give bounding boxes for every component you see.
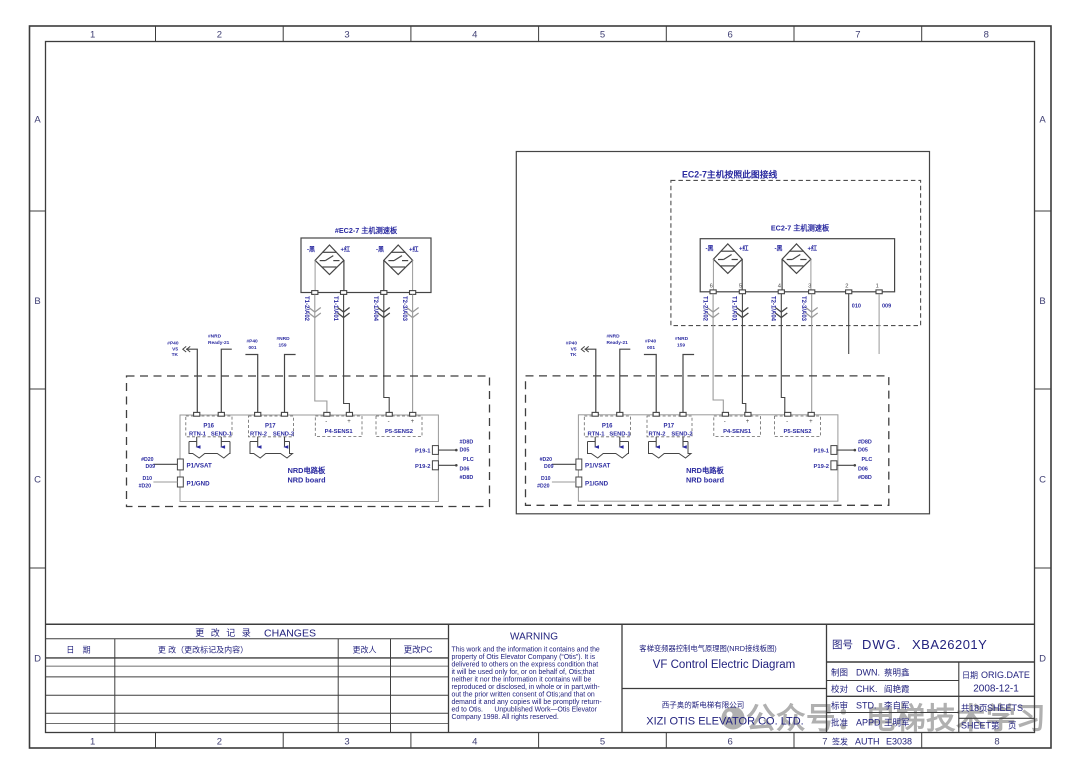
net label #P40 V5 TK (left) xyxy=(167,341,179,359)
wire net V5 into P16-RTN-1 (right) xyxy=(585,349,596,412)
connector P1/GND pad (right) xyxy=(576,477,582,487)
svg-text:5: 5 xyxy=(739,284,742,290)
svg-text:B: B xyxy=(1039,296,1045,307)
net label #NRD 159 (left) xyxy=(277,336,291,349)
right zone tick lines xyxy=(1035,211,1052,568)
net label #P40 001 (left) xyxy=(247,339,259,352)
terminal pin 5 on right board xyxy=(739,290,745,294)
NRD board outline (left) xyxy=(180,415,438,502)
svg-text:更改人: 更改人 xyxy=(353,645,377,655)
svg-text:2: 2 xyxy=(217,30,222,41)
svg-text:#P40: #P40 xyxy=(247,339,259,345)
svg-text:4: 4 xyxy=(472,30,477,41)
wire T2-3/A03 (left) xyxy=(412,295,414,413)
connector P5-SENS2 dashed box (left) xyxy=(376,416,422,437)
connector P19-2 pad (left) xyxy=(432,461,438,470)
svg-text:#D8D: #D8D xyxy=(858,440,872,446)
svg-text:CHANGES: CHANGES xyxy=(264,628,316,640)
plug P17 contact arrows (right) xyxy=(655,445,687,448)
svg-text:-黑: -黑 xyxy=(775,245,783,253)
terminal pin 1 on right board xyxy=(876,290,882,294)
svg-text:-: - xyxy=(388,419,390,425)
top zone numbers 1-8 xyxy=(90,30,989,41)
svg-text:客梯变频器控制电气原理图(NRD接线板图): 客梯变频器控制电气原理图(NRD接线板图) xyxy=(639,644,776,653)
svg-text:批准: 批准 xyxy=(831,718,849,728)
wire D09 to P1/VSAT (left) xyxy=(153,463,177,465)
svg-text:1: 1 xyxy=(90,30,95,41)
svg-text:日 期: 日 期 xyxy=(66,646,93,655)
dashed box EC2-7 host wiring (right) xyxy=(671,180,921,325)
wire into plug P17 pin1 (right) xyxy=(655,437,657,447)
svg-text:P4-SENS1: P4-SENS1 xyxy=(325,429,354,435)
wire right B1- vertical xyxy=(712,259,714,290)
plug shell under P16 (left) xyxy=(189,442,230,459)
title block top line xyxy=(46,623,1035,625)
svg-text:out the prior written consent: out the prior written consent of Otis;an… xyxy=(452,691,595,698)
left zone letters A-D xyxy=(34,115,41,665)
terminal P17-RTN-2 (left) xyxy=(255,412,261,416)
svg-text:T2-3/A03: T2-3/A03 xyxy=(401,296,407,322)
svg-text:第 页: 第 页 xyxy=(991,721,1017,731)
connector P16 dashed box (right) xyxy=(584,416,630,437)
svg-text:3: 3 xyxy=(344,30,349,41)
net label #P40 V5 TK (right) xyxy=(566,341,578,359)
svg-text:#NRD: #NRD xyxy=(607,334,621,340)
svg-text:A: A xyxy=(34,115,41,126)
speed sensor B2 diamond (right board) xyxy=(782,244,811,274)
arrow on wire T2-3/A03 (left) xyxy=(407,308,419,318)
svg-text:This work and the information: This work and the information it contain… xyxy=(452,647,600,654)
wire right B1+ vertical xyxy=(741,259,743,290)
svg-text:NRD电路板: NRD电路板 xyxy=(288,466,326,475)
wire right B2+ vertical xyxy=(810,259,812,290)
svg-text:#D8D: #D8D xyxy=(858,475,872,481)
svg-text:6: 6 xyxy=(710,284,713,290)
wire D10 to P1/GND (left) xyxy=(153,481,177,483)
svg-text:更改PC: 更改PC xyxy=(404,645,433,655)
svg-text:P19-2: P19-2 xyxy=(415,464,430,470)
connector P4-SENS1 dashed box (right) xyxy=(714,416,761,437)
encoder board box EC2-7 (right) xyxy=(700,239,894,292)
svg-text:共18页: 共18页 xyxy=(961,703,987,713)
svg-text:P17: P17 xyxy=(663,424,674,430)
svg-text:日期: 日期 xyxy=(962,671,978,680)
arrow on wire T1-1/A01 (right) xyxy=(736,308,748,318)
svg-text:RTN-2: RTN-2 xyxy=(250,432,267,438)
svg-text:D05: D05 xyxy=(460,448,470,454)
wire D09 to P1/VSAT (right) xyxy=(552,463,576,465)
svg-text:制图: 制图 xyxy=(831,668,848,678)
wire T1-2/A02 (left) xyxy=(315,295,327,413)
svg-text:P16: P16 xyxy=(602,424,613,430)
terminal T2-1 on left board xyxy=(381,291,387,295)
wire T2-1/A04 (left) xyxy=(384,295,389,413)
svg-text:#D20: #D20 xyxy=(139,484,152,490)
svg-text:6: 6 xyxy=(728,737,733,748)
svg-text:V5: V5 xyxy=(172,347,178,353)
changes table lines xyxy=(46,639,449,733)
svg-text:P5-SENS2: P5-SENS2 xyxy=(783,429,811,435)
plug shell under P17 (right) xyxy=(649,442,692,459)
svg-text:T2-1/A04: T2-1/A04 xyxy=(770,296,776,322)
wire B1- vertical (left) xyxy=(314,260,316,290)
wire P19-1 to PLC D05 (right) xyxy=(837,449,854,451)
svg-text:P1/VSAT: P1/VSAT xyxy=(187,463,213,470)
svg-text:SHEETS: SHEETS xyxy=(987,703,1023,713)
svg-text:-: - xyxy=(786,419,788,425)
svg-text:D06: D06 xyxy=(858,467,868,473)
svg-text:NRD board: NRD board xyxy=(287,476,325,485)
wire net 001 into P17-RTN-2 (left) xyxy=(245,355,257,413)
svg-text:T1-2/A02: T1-2/A02 xyxy=(701,296,707,322)
svg-text:WARNING: WARNING xyxy=(510,632,558,643)
wire T1-2/A02 (right) xyxy=(713,294,723,413)
svg-text:009: 009 xyxy=(882,304,891,310)
terminal P4-SENS1- (right) xyxy=(722,412,728,416)
svg-text:+: + xyxy=(411,419,415,425)
wire 010 stub (right pin2) xyxy=(848,294,850,354)
wire B2+ vertical (left) xyxy=(412,260,414,290)
source arrow of net V5 (left) xyxy=(183,346,190,352)
wire net V5 into P16-RTN-1 (left) xyxy=(186,349,197,412)
arrow on wire T2-1/A04 (left) xyxy=(378,308,390,318)
terminal P16-SEND-1 (right) xyxy=(617,412,623,416)
svg-text:SEND-1: SEND-1 xyxy=(211,432,233,438)
wire net 159 into P17-SEND-2 (right) xyxy=(683,355,694,413)
svg-text:D05: D05 xyxy=(858,448,868,454)
wire net Ready-21 into P16-SEND-1 (left) xyxy=(221,349,232,412)
svg-text:C: C xyxy=(1039,475,1046,486)
plug shell under P16 (right) xyxy=(588,442,629,459)
left zone tick lines xyxy=(30,211,46,568)
svg-text:Ready-21: Ready-21 xyxy=(607,340,629,346)
svg-text:P19-2: P19-2 xyxy=(814,464,829,470)
svg-text:SEND-2: SEND-2 xyxy=(273,432,294,438)
svg-text:7: 7 xyxy=(855,30,860,41)
svg-text:#P40: #P40 xyxy=(645,339,657,345)
warning box borders xyxy=(448,624,450,732)
svg-text:#P40: #P40 xyxy=(167,341,179,347)
wire P19-2 to PLC D06 (left) xyxy=(438,464,455,466)
svg-text:-: - xyxy=(325,419,327,425)
wire net 159 into P17-SEND-2 (left) xyxy=(285,355,296,413)
wire into plug P16 pin1 (right) xyxy=(594,437,596,447)
connector P1/VSAT pad (right) xyxy=(576,459,582,470)
watermark logo circle xyxy=(722,707,745,730)
svg-text:阎艳霞: 阎艳霞 xyxy=(884,684,910,694)
outer box EC2-7 field wiring note (right) xyxy=(516,152,929,514)
svg-text:P1/GND: P1/GND xyxy=(187,481,211,488)
wire into plug P17 pin2 (left) xyxy=(284,437,286,447)
svg-text:6: 6 xyxy=(728,30,733,41)
wire T2-1/A04 (right) xyxy=(781,294,785,413)
svg-text:+红: +红 xyxy=(409,246,419,254)
connector P17 dashed box (left) xyxy=(249,416,294,437)
connector P19-1 pad (left) xyxy=(432,446,438,455)
NRD assembly dashed enclosure (left) xyxy=(127,376,490,507)
svg-text:D09: D09 xyxy=(544,464,554,470)
warning body text xyxy=(452,647,602,721)
svg-text:AUTH: AUTH xyxy=(855,737,880,747)
svg-text:EC2-7 主机测速板: EC2-7 主机测速板 xyxy=(771,224,830,233)
connector P19-2 pad (right) xyxy=(831,461,837,470)
right zone letters A-D xyxy=(1039,115,1046,665)
svg-text:P1/VSAT: P1/VSAT xyxy=(585,463,611,470)
label D10 / #D20 xyxy=(537,476,551,490)
svg-text:3: 3 xyxy=(344,737,349,748)
terminal pin 2 on right board xyxy=(846,290,852,294)
svg-text:159: 159 xyxy=(279,343,287,349)
svg-text:#D8D: #D8D xyxy=(460,475,474,481)
svg-text:DWG.: DWG. xyxy=(862,637,901,652)
wire into plug P17 pin2 (right) xyxy=(682,437,684,447)
svg-text:8: 8 xyxy=(994,737,999,748)
svg-text:Ready-21: Ready-21 xyxy=(208,340,230,346)
svg-text:8: 8 xyxy=(984,30,989,41)
svg-text:#NRD: #NRD xyxy=(675,336,689,342)
svg-text:D: D xyxy=(34,654,41,665)
svg-text:CHK.: CHK. xyxy=(856,684,878,694)
svg-text:V5: V5 xyxy=(571,347,577,353)
pin numbers 6 5 4 3 2 1 (right board) xyxy=(710,284,879,290)
svg-text:P17: P17 xyxy=(265,424,276,430)
arrow on wire T2-3/A03 (right) xyxy=(806,308,818,318)
wire B2- vertical (left) xyxy=(383,260,385,290)
svg-text:159: 159 xyxy=(677,343,685,349)
svg-text:西子奥的斯电梯有限公司: 西子奥的斯电梯有限公司 xyxy=(662,700,745,710)
svg-text:APPD: APPD xyxy=(856,718,881,728)
svg-text:+红: +红 xyxy=(341,246,351,254)
svg-text:+: + xyxy=(347,419,351,425)
svg-text:VF Control Electric Diagram: VF Control Electric Diagram xyxy=(653,659,796,671)
bottom zone numbers 1-8 xyxy=(90,737,1000,748)
svg-text:XIZI OTIS ELEVATOR CO. LTD.: XIZI OTIS ELEVATOR CO. LTD. xyxy=(646,716,804,728)
wire into plug P16 pin2 (left) xyxy=(220,437,222,447)
connector P4-SENS1 dashed box (left) xyxy=(315,416,362,437)
terminal P5-SENS2- (right) xyxy=(785,412,791,416)
svg-text:+红: +红 xyxy=(739,245,749,253)
svg-text:#NRD: #NRD xyxy=(277,336,291,342)
bottom zone tick lines xyxy=(156,733,922,749)
svg-text:E3038: E3038 xyxy=(886,737,912,747)
svg-text:更 改（更改标记及内容）: 更 改（更改标记及内容） xyxy=(158,645,248,655)
speed sensor B1 diamond (left board) xyxy=(315,245,344,275)
wire P19-1 to PLC D05 (left) xyxy=(438,449,455,451)
terminal P4-SENS1+ (left) xyxy=(346,412,352,416)
svg-text:+: + xyxy=(809,419,813,425)
label #D20 / D09 xyxy=(540,457,554,470)
wire B1+ vertical (left) xyxy=(343,260,345,290)
svg-text:标审: 标审 xyxy=(831,701,848,711)
svg-text:RTN-2: RTN-2 xyxy=(648,432,665,438)
svg-text:5: 5 xyxy=(600,30,605,41)
NRD board outline (right) xyxy=(578,415,838,501)
speed sensor B1 diamond (right board) xyxy=(713,244,742,274)
terminal pin 3 on right board xyxy=(809,290,815,294)
svg-text:neither it nor the informatio: neither it nor the information it contai… xyxy=(452,676,592,683)
svg-text:#D8D: #D8D xyxy=(460,440,474,446)
svg-text:P19-1: P19-1 xyxy=(415,449,431,455)
svg-text:1: 1 xyxy=(876,284,879,290)
wire D10 to P1/GND (right) xyxy=(552,481,576,483)
plug P16 contact arrows (left) xyxy=(196,445,226,448)
svg-text:SEND-2: SEND-2 xyxy=(671,432,692,438)
svg-text:Company 1998. All rights rese: Company 1998. All rights reserved. xyxy=(452,714,559,721)
svg-text:T2-3/A03: T2-3/A03 xyxy=(800,296,806,322)
terminal P5-SENS2+ (right) xyxy=(808,412,814,416)
wire into plug P16 pin1 (left) xyxy=(196,437,198,447)
svg-text:T2-1/A04: T2-1/A04 xyxy=(372,296,378,322)
svg-text:A: A xyxy=(1039,115,1046,126)
svg-text:RTN-1: RTN-1 xyxy=(587,432,605,438)
svg-text:4: 4 xyxy=(472,737,477,748)
svg-text:#D20: #D20 xyxy=(141,457,154,463)
svg-text:001: 001 xyxy=(249,345,257,351)
drawing title cell divider xyxy=(826,624,828,732)
svg-text:it will be used only for, or o: it will be used only for, or on behalf o… xyxy=(452,669,595,676)
svg-text:SEND-1: SEND-1 xyxy=(609,432,631,438)
svg-text:P19-1: P19-1 xyxy=(814,449,830,455)
terminal P5-SENS2+ (left) xyxy=(410,412,416,416)
connector P5-SENS2 dashed box (right) xyxy=(775,416,821,437)
terminal P16-RTN-1 (left) xyxy=(194,412,200,416)
svg-text:P16: P16 xyxy=(203,424,214,430)
svg-text:PLC: PLC xyxy=(463,457,474,463)
svg-text:P1/GND: P1/GND xyxy=(585,481,609,488)
wire into plug P17 pin1 (left) xyxy=(257,437,259,447)
svg-text:ORIG.DATE: ORIG.DATE xyxy=(981,670,1030,680)
svg-text:SHEET: SHEET xyxy=(961,721,992,731)
wire P19-2 to PLC D06 (right) xyxy=(837,464,854,466)
terminal pin 4 on right board xyxy=(778,290,784,294)
svg-text:签发: 签发 xyxy=(832,737,848,747)
svg-text:1: 1 xyxy=(90,737,95,748)
speed sensor B2 diamond (left board) xyxy=(384,245,413,275)
svg-text:D10: D10 xyxy=(142,476,152,482)
svg-text:-黑: -黑 xyxy=(376,246,384,254)
svg-text:更 改 记 录: 更 改 记 录 xyxy=(195,627,253,638)
svg-text:DWN.: DWN. xyxy=(856,668,880,678)
wire T1-1/A01 (right) xyxy=(742,294,745,413)
arrow on wire T1-2/A02 (right) xyxy=(707,308,719,318)
plug P17 contact arrows (left) xyxy=(257,445,289,448)
svg-text:delivered to others on the exp: delivered to others on the express condi… xyxy=(452,662,599,669)
svg-text:-黑: -黑 xyxy=(706,245,714,253)
terminal P5-SENS2- (left) xyxy=(386,412,392,416)
svg-text:7: 7 xyxy=(822,737,827,748)
svg-text:PLC: PLC xyxy=(862,457,873,463)
svg-text:NRD电路板: NRD电路板 xyxy=(686,466,724,475)
svg-text:D: D xyxy=(1039,654,1046,665)
svg-text:#D20: #D20 xyxy=(540,457,553,463)
connector P1/GND pad (left) xyxy=(177,477,183,487)
terminal P4-SENS1+ (right) xyxy=(745,412,751,416)
svg-text:李自军: 李自军 xyxy=(884,701,910,711)
svg-text:P5-SENS2: P5-SENS2 xyxy=(385,429,413,435)
terminal P17-SEND-2 (right) xyxy=(680,412,686,416)
connector P19-1 pad (right) xyxy=(831,446,837,455)
terminal pin 6 on right board xyxy=(710,290,716,294)
svg-text:reproduced or disclosed, in wh: reproduced or disclosed, in whole or in … xyxy=(452,684,600,691)
terminal T1-2 on left board xyxy=(312,291,318,295)
svg-text:STD.: STD. xyxy=(856,701,877,711)
arrow on wire T1-2/A02 (left) xyxy=(309,308,321,318)
plug shell under P17 (left) xyxy=(250,442,293,459)
net label #NRD Ready-21 (left) xyxy=(208,334,230,347)
top zone tick lines xyxy=(156,26,922,42)
svg-text:RTN-1: RTN-1 xyxy=(189,432,207,438)
svg-text:蔡明鑫: 蔡明鑫 xyxy=(884,668,910,678)
label #D20 / D09 xyxy=(141,457,155,470)
wire 009 stub (right pin1) xyxy=(878,294,880,354)
svg-text:D06: D06 xyxy=(460,467,470,473)
svg-text:+: + xyxy=(746,419,750,425)
wire into plug P16 pin2 (right) xyxy=(619,437,621,447)
connector P16 dashed box (left) xyxy=(186,416,232,437)
terminal P16-SEND-1 (left) xyxy=(218,412,224,416)
svg-text:+红: +红 xyxy=(808,245,818,253)
svg-text:B: B xyxy=(34,296,40,307)
svg-text:#EC2-7 主机测速板: #EC2-7 主机测速板 xyxy=(335,226,398,235)
svg-text:T1-1/A01: T1-1/A01 xyxy=(731,296,737,322)
net label #P40 001 (right) xyxy=(645,339,657,352)
svg-text:#NRD: #NRD xyxy=(208,334,222,340)
dwg number block lines xyxy=(827,662,1035,733)
svg-text:C: C xyxy=(34,475,41,486)
net label #NRD Ready-21 (right) xyxy=(607,334,629,347)
wire T1-1/A01 (left) xyxy=(344,295,350,413)
svg-text:D10: D10 xyxy=(541,476,551,482)
labels #D8D D05 PLC D06 #D8D (left) xyxy=(460,440,474,482)
terminal P4-SENS1- (left) xyxy=(324,412,330,416)
svg-text:2008-12-1: 2008-12-1 xyxy=(973,684,1019,695)
svg-text:#P40: #P40 xyxy=(566,341,578,347)
svg-text:XBA26201Y: XBA26201Y xyxy=(912,637,987,652)
wire net Ready-21 into P16-SEND-1 (right) xyxy=(620,349,631,412)
source arrow of net V5 (right) xyxy=(581,346,588,352)
svg-text:EC2-7主机按照此图接线: EC2-7主机按照此图接线 xyxy=(682,169,778,180)
labels #D8D D05 PLC D06 #D8D (right) xyxy=(858,440,872,482)
svg-text:2: 2 xyxy=(845,284,848,290)
svg-text:图号: 图号 xyxy=(832,639,853,651)
connector P17 dashed box (right) xyxy=(647,416,692,437)
svg-text:ed to Otis. Unpublished W: ed to Otis. Unpublished Work—Otis Elevat… xyxy=(452,706,598,713)
plug P16 contact arrows (right) xyxy=(594,445,624,448)
net label #NRD 159 (right) xyxy=(675,336,689,349)
svg-text:王明军: 王明军 xyxy=(884,718,910,728)
svg-text:demand it and any copies will: demand it and any copies will be promptl… xyxy=(452,699,602,706)
terminal T2-3 on left board xyxy=(410,291,416,295)
encoder board box #EC2-7 (left) xyxy=(301,238,431,293)
terminal P16-RTN-1 (right) xyxy=(592,412,598,416)
svg-text:001: 001 xyxy=(647,345,655,351)
terminal T1-1 on left board xyxy=(341,291,347,295)
svg-text:010: 010 xyxy=(852,304,861,310)
terminal P17-RTN-2 (right) xyxy=(653,412,659,416)
arrow on wire T1-1/A01 (left) xyxy=(338,308,350,318)
terminal P17-SEND-2 (left) xyxy=(281,412,287,416)
svg-text:3: 3 xyxy=(808,284,811,290)
arrow on wire T2-1/A04 (right) xyxy=(775,308,787,318)
wire T2-3/A03 (right) xyxy=(811,294,813,413)
NRD assembly dashed enclosure (right) xyxy=(526,376,889,505)
label D10 / #D20 xyxy=(139,476,153,490)
svg-text:-: - xyxy=(724,419,726,425)
svg-text:T1-2/A02: T1-2/A02 xyxy=(303,296,309,322)
wire right B2- vertical xyxy=(781,259,783,290)
svg-text:NRD board: NRD board xyxy=(686,476,724,485)
svg-text:#D20: #D20 xyxy=(537,484,550,490)
